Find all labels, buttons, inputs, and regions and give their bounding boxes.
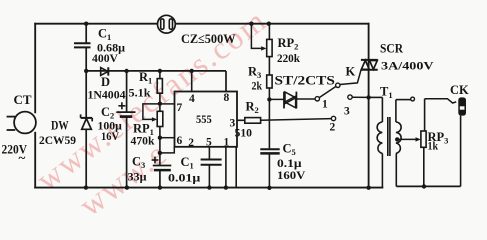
resistor R1 5.1k	[157, 71, 162, 111]
wire pin2 jog	[160, 147, 174, 153]
wire mid bus to pin8	[86, 71, 226, 92]
wire pin6	[160, 137, 175, 139]
resistor R2 510	[245, 118, 261, 124]
svg-text:CZ≤500W: CZ≤500W	[181, 31, 236, 46]
node contact 3	[348, 95, 352, 99]
svg-text:2: 2	[330, 122, 336, 134]
svg-text:5: 5	[206, 137, 212, 149]
svg-text:DW: DW	[51, 118, 69, 133]
svg-text:6: 6	[177, 135, 183, 147]
svg-text:3A/400V: 3A/400V	[381, 59, 434, 73]
svg-text:510: 510	[235, 126, 253, 140]
svg-text:16V: 16V	[101, 129, 119, 143]
triac SCR	[361, 60, 378, 70]
svg-text:555: 555	[196, 114, 212, 126]
svg-text:1: 1	[224, 137, 230, 149]
svg-text:~: ~	[19, 150, 26, 165]
svg-text:3: 3	[344, 106, 350, 118]
wire left rail upper	[34, 24, 36, 113]
svg-text:8: 8	[224, 92, 230, 104]
wire bottom bus	[35, 187, 382, 189]
capacitor C3 33u	[153, 166, 172, 188]
wire secondary bottom bus	[396, 185, 460, 187]
wire diac to contact 1	[296, 98, 315, 100]
wire to diac	[269, 98, 283, 100]
wire pin5 drop	[208, 147, 210, 160]
wire SCR anode column	[368, 24, 370, 188]
resistor R3 2k	[267, 75, 272, 148]
wire box corner drop	[235, 147, 237, 188]
plus sign C3	[152, 157, 159, 164]
node contact 2	[331, 116, 335, 120]
transformer core	[388, 117, 390, 156]
transformer T1 secondary	[396, 100, 411, 187]
node switch pole	[336, 83, 340, 87]
wire pin3 out	[237, 119, 245, 121]
svg-text:33μ: 33μ	[128, 170, 147, 184]
node contact 1	[315, 97, 319, 101]
svg-text:SCR: SCR	[380, 41, 404, 56]
capacitor C1 0.01u	[201, 160, 222, 188]
wire pin1 drop	[225, 147, 227, 188]
capacitor C1 0.68u rail	[74, 24, 91, 118]
svg-text:4: 4	[189, 93, 195, 105]
svg-text:220k: 220k	[277, 51, 300, 65]
svg-text:470k: 470k	[131, 134, 155, 148]
svg-text:CT: CT	[14, 93, 33, 107]
node secondary terminal	[411, 97, 415, 101]
watermark www.elecfans.com main diagonal	[30, 1, 274, 224]
svg-text:2CW59: 2CW59	[39, 133, 76, 147]
wire top bus	[35, 23, 368, 25]
op-amp-box 555 IC U1	[175, 92, 238, 147]
plus sign C2	[118, 102, 125, 109]
jack CK	[458, 97, 466, 115]
wire R2 to contact 2	[261, 119, 332, 121]
svg-text:1N4004: 1N4004	[88, 88, 126, 102]
transformer T1 primary	[369, 97, 383, 187]
wire CK down	[460, 116, 462, 187]
wire left rail lower	[34, 133, 36, 188]
switch arm K lower	[319, 86, 336, 97]
svg-text:2k: 2k	[252, 79, 263, 93]
wiper loop RP1	[143, 104, 160, 122]
svg-text:7: 7	[177, 102, 183, 114]
zener DW	[81, 114, 93, 187]
wire gate lead	[340, 70, 361, 85]
capacitor C5 0.1u	[260, 149, 279, 188]
plug CT	[7, 112, 36, 134]
diode D 1N4004	[101, 67, 109, 75]
wiper RP2	[251, 24, 266, 51]
svg-text:2: 2	[188, 137, 194, 149]
wire contact3 to SCR column	[352, 96, 369, 98]
diac ST/2CTS	[284, 92, 296, 109]
capacitor C2 100u rail	[116, 71, 135, 188]
wire secondary tap to RP3 wiper	[397, 137, 421, 141]
potentiometer RP1 470k	[157, 111, 163, 165]
svg-text:ST/2CTS: ST/2CTS	[275, 74, 335, 88]
svg-text:160V: 160V	[277, 168, 306, 182]
wire pin4 drop	[191, 71, 193, 92]
potentiometer RP2 220k	[267, 24, 272, 75]
svg-text:K: K	[346, 65, 356, 79]
svg-text:400V: 400V	[92, 51, 118, 65]
socket CZ	[158, 15, 176, 33]
wire RP3 top to CK	[425, 99, 457, 103]
wire pin7	[160, 103, 175, 105]
potentiometer RP3 1k	[421, 99, 426, 187]
svg-text:CK: CK	[450, 83, 469, 97]
svg-text:5.1k: 5.1k	[129, 86, 151, 100]
svg-text:1k: 1k	[428, 139, 439, 153]
svg-text:1: 1	[322, 99, 328, 111]
svg-text:0.01μ: 0.01μ	[168, 171, 201, 185]
